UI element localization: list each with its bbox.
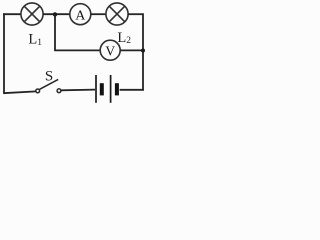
wire right vertical	[142, 13, 144, 90]
battery BT1 plate short 1	[100, 83, 104, 95]
lamp L1	[21, 3, 43, 25]
wire branch to voltmeter	[54, 49, 100, 51]
wire ammeter to L2	[91, 13, 107, 15]
svg-text:S: S	[45, 68, 53, 84]
svg-text:A: A	[75, 9, 86, 24]
switch S	[36, 79, 61, 92]
wire battery to right	[120, 89, 144, 91]
wire bottom-left horizontal	[3, 91, 36, 93]
ammeter U1	[70, 4, 91, 25]
wire voltmeter to right	[120, 49, 144, 51]
lamp L2	[106, 3, 128, 25]
node junction right	[141, 49, 145, 53]
node junction top	[53, 12, 57, 16]
wire left vertical	[3, 13, 5, 93]
svg-text:L2: L2	[117, 30, 131, 46]
wire top-right horizontal	[128, 13, 143, 15]
battery BT1 plate short 2	[115, 83, 119, 95]
battery BT1 plate long 1	[95, 75, 97, 103]
wire top-left horizontal	[3, 13, 21, 15]
svg-text:V: V	[105, 43, 115, 58]
wire L1 to ammeter	[43, 13, 70, 15]
wire voltmeter branch vertical	[54, 14, 56, 50]
battery BT1 plate long 2	[110, 75, 112, 103]
wire switch to battery	[61, 89, 95, 92]
voltmeter U2	[100, 40, 120, 60]
svg-text:L1: L1	[28, 32, 42, 48]
